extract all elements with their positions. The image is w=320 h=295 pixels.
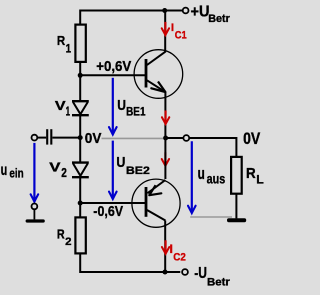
capacitor C (37, 129, 78, 144)
svg-text:I: I (171, 22, 174, 34)
node junction output (163, 136, 168, 141)
wire T1 emitter (164, 93, 166, 139)
label -UBetr (194, 265, 230, 289)
svg-text:Betr: Betr (207, 277, 231, 289)
svg-text:1: 1 (66, 42, 72, 55)
gray line 0V mid (102, 137, 164, 139)
ground output (227, 218, 246, 222)
terminal -UBetr (182, 269, 188, 275)
gray line 0V right (190, 216, 232, 218)
label +UBetr (191, 3, 231, 25)
terminal input (32, 135, 38, 141)
svg-text:L: L (256, 173, 264, 187)
ground input (26, 209, 45, 222)
transistor T1 (134, 50, 183, 99)
arrow u_ein (31, 143, 39, 202)
terminal ground input (32, 204, 38, 210)
svg-text:0V: 0V (243, 130, 260, 148)
svg-text:+0,6V: +0,6V (96, 58, 131, 75)
label U_BE2 (116, 154, 149, 177)
wire V1 to V2 (79, 116, 81, 162)
label u_ein (1, 162, 24, 181)
node junction base wire T1 (78, 73, 83, 78)
svg-text:Betr: Betr (208, 13, 230, 25)
label V2 (49, 159, 67, 180)
label V1 (55, 98, 70, 119)
label R1 (57, 33, 72, 55)
wire T1 collector (164, 11, 166, 53)
wire RL to ground (235, 194, 237, 218)
svg-text:-U: -U (194, 265, 207, 282)
wire base T2 (80, 202, 145, 204)
wire bottom rail -UBetr (80, 253, 180, 272)
resistor R1 (75, 25, 85, 62)
wire T2 emitter from output node (164, 138, 166, 179)
label I_C1 (171, 22, 187, 41)
node junction base wire T2 (78, 201, 83, 206)
transistor T2 (132, 179, 180, 227)
arrow collector current into output node (162, 111, 169, 125)
arrow U_BE2 (109, 141, 117, 199)
svg-text:BE2: BE2 (126, 165, 150, 177)
svg-text:2: 2 (61, 166, 67, 180)
svg-text:C1: C1 (175, 30, 187, 42)
terminal +UBetr (183, 8, 189, 14)
svg-text:ein: ein (9, 166, 23, 181)
resistor RL (231, 157, 242, 194)
arrow I_C2 (162, 240, 169, 254)
node junction top rail T1 collector (162, 8, 167, 13)
svg-text:-0,6V: -0,6V (93, 204, 123, 220)
diode V2 (72, 163, 89, 178)
svg-text:R: R (246, 165, 256, 182)
label RL (246, 165, 264, 187)
wire R1 bottom to diode V1 (79, 62, 81, 101)
wire top rail +UBetr (80, 11, 182, 25)
arrow u_aus (188, 141, 196, 213)
svg-text:u: u (1, 162, 8, 179)
label I_C2 (170, 242, 186, 263)
svg-text:0V: 0V (85, 131, 102, 147)
label R2 (57, 226, 72, 248)
wire output to RL (189, 138, 236, 157)
arrow U_BE1 (109, 78, 117, 135)
diode V1 (72, 101, 89, 115)
svg-text:C2: C2 (173, 251, 186, 263)
wire T2 collector (164, 221, 166, 273)
svg-text:R: R (57, 33, 66, 48)
node junction bottom rail T2 collector (163, 270, 168, 275)
wire V2 to R2 (79, 178, 81, 217)
svg-text:+U: +U (191, 3, 210, 20)
svg-text:1: 1 (66, 105, 70, 119)
svg-text:R: R (57, 226, 65, 241)
svg-text:2: 2 (65, 236, 71, 248)
resistor R2 (75, 217, 85, 253)
arrow I_C1 (162, 22, 169, 35)
svg-text:U: U (117, 97, 126, 114)
svg-text:U: U (116, 154, 125, 171)
svg-text:V: V (55, 98, 66, 113)
svg-text:BE1: BE1 (126, 105, 146, 119)
arrow current output node to T2 emitter (162, 152, 169, 166)
label u_aus (198, 165, 226, 188)
wire base T1 (80, 74, 145, 76)
label U_BE1 (117, 97, 146, 119)
node junction capacitor (78, 135, 83, 140)
svg-text:V: V (49, 159, 60, 174)
svg-text:u: u (198, 165, 205, 183)
terminal output (183, 135, 189, 141)
wire output node to terminal (166, 137, 184, 139)
svg-text:aus: aus (207, 172, 226, 188)
